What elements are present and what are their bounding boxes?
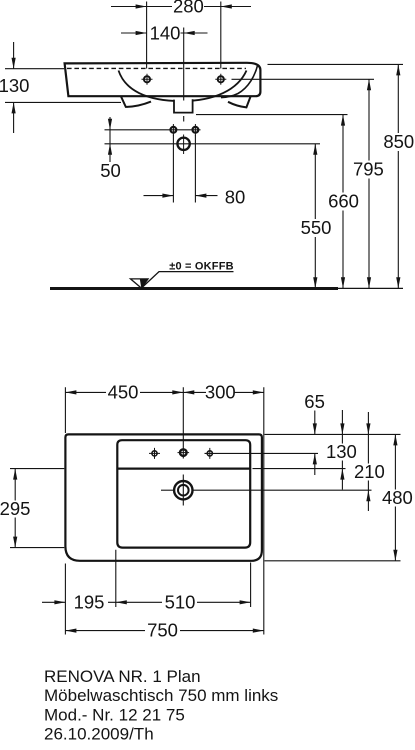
bowl front edge line — [117, 468, 250, 470]
datum symbol — [131, 272, 234, 288]
dim 480 — [382, 434, 414, 560]
extension line left hole top — [146, 2, 148, 69]
centerline — [183, 28, 185, 122]
dim 50 — [108, 117, 112, 162]
ref line plan bottom right — [265, 560, 401, 562]
dim 210 — [354, 412, 385, 511]
ref line 660 — [196, 114, 348, 116]
ref line 210 drain — [193, 489, 372, 491]
svg-text:140: 140 — [150, 23, 181, 44]
svg-text:850: 850 — [383, 131, 414, 152]
svg-text:550: 550 — [301, 217, 332, 238]
plan tap hole right — [207, 448, 212, 459]
ref line plan top right — [265, 433, 401, 435]
dim 280 — [111, 4, 251, 8]
plan inner bowl outline — [117, 440, 250, 547]
svg-text:50: 50 — [100, 160, 121, 181]
plan tap hole center — [178, 449, 190, 456]
plan tap hole left — [149, 448, 160, 459]
right fixing hole — [215, 74, 226, 85]
svg-text:510: 510 — [165, 591, 196, 612]
bowl front arc — [119, 71, 247, 102]
dim 130 plan — [327, 410, 358, 490]
svg-text:280: 280 — [173, 0, 204, 17]
plan outer outline — [65, 434, 262, 560]
dim 130 left — [5, 42, 121, 133]
dim 80 — [144, 135, 218, 203]
svg-text:Mod.- Nr. 12 21 75: Mod.- Nr. 12 21 75 — [44, 705, 185, 724]
plan drain — [161, 475, 193, 506]
overflow small hole right — [193, 124, 199, 136]
ref line 130 bowl edge — [253, 468, 346, 470]
right support bracket — [228, 96, 251, 107]
dim 795 — [353, 79, 385, 288]
overflow small hole left — [171, 124, 177, 136]
bowl right wall curve — [221, 64, 258, 97]
svg-text:130: 130 — [326, 441, 357, 462]
svg-text:750: 750 — [147, 620, 178, 641]
dim 850 — [383, 64, 415, 288]
ref line 795 — [232, 78, 375, 80]
svg-text:130: 130 — [0, 75, 29, 96]
dim 550 — [300, 144, 332, 288]
dim 750 — [65, 629, 263, 633]
ref line 65 taps — [205, 452, 319, 454]
svg-text:795: 795 — [353, 159, 384, 180]
svg-text:RENOVA NR. 1 Plan: RENOVA NR. 1 Plan — [44, 667, 201, 686]
svg-text:80: 80 — [225, 186, 246, 207]
dim 660 — [328, 115, 360, 289]
overflow box — [174, 99, 193, 112]
svg-text:295: 295 — [0, 498, 30, 519]
dim 295 — [0, 469, 64, 548]
dim 65 — [313, 411, 317, 476]
svg-text:480: 480 — [382, 487, 413, 508]
dim 450 300 — [65, 387, 263, 634]
ref line small holes — [105, 129, 201, 131]
dim 140 — [121, 31, 208, 35]
dim 195 510 — [42, 550, 251, 635]
floor line — [50, 287, 338, 290]
ref line 550 drain — [105, 143, 321, 145]
left fixing hole — [142, 74, 153, 85]
drain hole elevation — [177, 135, 189, 155]
title text block — [44, 667, 278, 744]
svg-text:26.10.2009/Th: 26.10.2009/Th — [44, 725, 154, 744]
svg-text:±0 = OKFFB: ±0 = OKFFB — [169, 261, 234, 273]
basin body outline — [65, 63, 261, 96]
extension line right hole top — [220, 2, 222, 69]
left support bracket — [121, 96, 151, 107]
svg-text:450: 450 — [108, 381, 139, 402]
svg-text:195: 195 — [74, 591, 105, 612]
svg-text:65: 65 — [304, 391, 325, 412]
svg-text:Möbelwaschtisch 750 mm links: Möbelwaschtisch 750 mm links — [44, 686, 278, 705]
dashed rim line — [67, 67, 246, 69]
svg-text:300: 300 — [205, 381, 236, 402]
svg-text:660: 660 — [328, 191, 359, 212]
svg-text:210: 210 — [354, 461, 385, 482]
ref line 850 — [268, 63, 404, 65]
